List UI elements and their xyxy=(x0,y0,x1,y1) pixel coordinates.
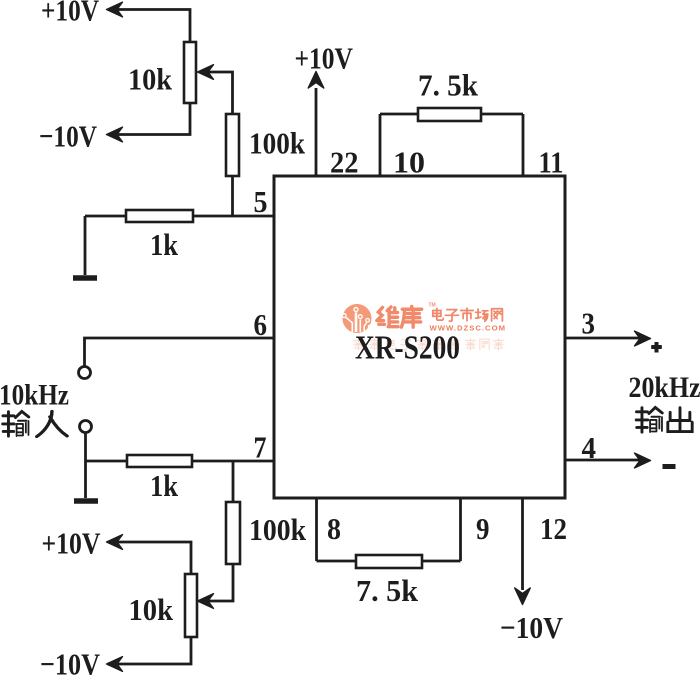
wire top loop xyxy=(380,113,523,116)
terminal J1 input top xyxy=(79,367,91,379)
svg-text:1k: 1k xyxy=(150,227,179,262)
svg-text:−10V: −10V xyxy=(39,119,97,154)
pin label 4 xyxy=(582,430,597,465)
value label R3 1k xyxy=(150,227,179,262)
power label +10V top-center xyxy=(295,41,354,76)
svg-text:1k: 1k xyxy=(150,468,179,503)
svg-text:4: 4 xyxy=(582,430,597,465)
power label +10V top-left xyxy=(41,0,99,28)
wire bottom loop xyxy=(317,560,461,563)
value label R7 7.5k xyxy=(418,68,479,103)
watermark text 电子市场网 xyxy=(433,308,503,321)
wire R2 bottom to pin5 node xyxy=(231,176,234,216)
svg-text:10: 10 xyxy=(393,145,425,180)
wire pin7 node to R5 top xyxy=(232,461,235,502)
power label -10V top-left xyxy=(39,119,97,154)
wire pin 22 to +10V xyxy=(308,72,324,177)
pin label 3 xyxy=(582,306,596,341)
wire R6 top to +10V bottom-left xyxy=(108,542,191,574)
wire +10V top-left to R1 top xyxy=(108,10,190,43)
resistor R2 100k xyxy=(226,114,239,176)
terminal J2 input bottom xyxy=(80,421,92,433)
resistor R7 7.5k xyxy=(418,108,481,121)
value label R1 10k xyxy=(128,62,173,97)
resistor R5 100k xyxy=(226,502,240,564)
svg-text:10k: 10k xyxy=(128,62,173,97)
ground G2 xyxy=(74,461,98,501)
svg-text:7. 5k: 7. 5k xyxy=(418,68,479,103)
ground G1 xyxy=(73,216,97,278)
svg-text:12: 12 xyxy=(540,511,567,546)
svg-text:XR-S200: XR-S200 xyxy=(355,330,460,367)
polarity label + xyxy=(651,342,662,353)
power +10V bottom-left arrowhead xyxy=(107,535,123,550)
label 20kHz xyxy=(629,371,700,404)
wire pin 8 stub xyxy=(315,498,318,561)
value label R6 10k xyxy=(129,592,174,627)
svg-text:TM: TM xyxy=(429,303,436,309)
svg-text:11: 11 xyxy=(539,145,564,180)
resistor R4 1k xyxy=(127,455,192,467)
svg-text:100k: 100k xyxy=(249,512,307,547)
label 10kHz xyxy=(0,379,69,412)
pin label 11 xyxy=(539,145,564,180)
svg-text:7. 5k: 7. 5k xyxy=(356,573,419,608)
svg-text:+10V: +10V xyxy=(295,41,354,76)
svg-text:20kHz: 20kHz xyxy=(629,371,700,404)
IC U1 XR-S200 body xyxy=(274,176,565,498)
wire R6 bottom to -10V bottom-left xyxy=(108,637,191,664)
pin label 8 xyxy=(327,511,341,546)
wire pin 10 stub xyxy=(379,114,382,176)
pin label 7 xyxy=(254,430,267,465)
potentiometer R6 10k xyxy=(185,574,197,637)
value label R5 100k xyxy=(249,512,307,547)
watermark faint slogan row xyxy=(353,339,503,350)
pin label 10 xyxy=(393,145,425,180)
wire pin 4 output minus xyxy=(565,453,651,468)
svg-text:100k: 100k xyxy=(249,126,306,161)
pin label 12 xyxy=(540,511,567,546)
wire pin 11 stub xyxy=(522,114,525,176)
svg-text:22: 22 xyxy=(330,145,359,180)
svg-text:+10V: +10V xyxy=(42,526,101,561)
power -10V top-left arrowhead xyxy=(107,127,123,142)
pin label 9 xyxy=(476,511,490,546)
pin label 6 xyxy=(254,307,268,342)
wire pin 9 stub xyxy=(459,498,462,561)
power -10V bottom-left arrowhead xyxy=(107,657,123,672)
watermark url WWW.DZSC.COM xyxy=(430,324,506,333)
svg-text:3: 3 xyxy=(582,306,596,341)
power label -10V bottom-center xyxy=(500,610,564,645)
svg-text:−10V: −10V xyxy=(500,610,564,645)
value label R4 1k xyxy=(150,468,179,503)
wire R1 wiper to R2 top xyxy=(198,65,233,114)
resistor R8 7.5k xyxy=(356,555,422,568)
svg-text:−10V: −10V xyxy=(40,647,101,677)
polarity label - xyxy=(663,464,676,469)
wire pin 7 xyxy=(86,460,275,463)
value label R8 7.5k xyxy=(356,573,419,608)
pin label 22 xyxy=(330,145,359,180)
potentiometer R1 10k xyxy=(184,42,196,103)
svg-text:6: 6 xyxy=(254,307,268,342)
power +10V top-left arrowhead xyxy=(107,2,123,17)
wire R5 bottom to R6 wiper xyxy=(198,564,234,608)
power label -10V bottom-left xyxy=(40,647,101,681)
svg-text:8: 8 xyxy=(327,511,341,546)
watermark text 维库 xyxy=(377,306,422,327)
label 输出 xyxy=(636,407,692,432)
value label R2 100k xyxy=(249,126,306,161)
watermark logo circle icon xyxy=(342,304,371,333)
wire pin 5 xyxy=(85,215,274,218)
label 输入 xyxy=(3,411,67,436)
wire J2 to pin 7 xyxy=(84,433,87,461)
svg-text:+10V: +10V xyxy=(41,0,99,28)
resistor R3 1k xyxy=(126,210,193,222)
pin label 5 xyxy=(254,184,268,219)
wire pin 12 to -10V xyxy=(515,498,531,605)
wire pin 3 output plus xyxy=(565,331,651,346)
power label +10V bottom-left xyxy=(42,526,101,561)
svg-text:10k: 10k xyxy=(129,592,174,627)
IC label XR-S200 xyxy=(355,330,460,367)
wire pin 6 xyxy=(85,338,275,366)
svg-text:9: 9 xyxy=(476,511,490,546)
watermark TM xyxy=(429,303,436,309)
svg-text:5: 5 xyxy=(254,184,268,219)
svg-text:10kHz: 10kHz xyxy=(0,379,69,412)
wire R1 bottom to -10V xyxy=(108,103,190,135)
svg-text:7: 7 xyxy=(254,430,267,465)
